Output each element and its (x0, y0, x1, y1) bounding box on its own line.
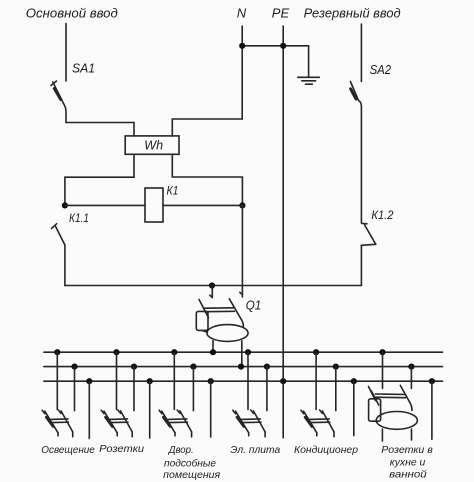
wire: N-PE bond (242, 45, 308, 47)
node A (62, 202, 68, 208)
branch 2: Розетки (101, 349, 152, 438)
svg-text:ванной: ванной (389, 470, 427, 481)
svg-text:К1.1: К1.1 (69, 213, 89, 225)
svg-text:Q1: Q1 (246, 297, 262, 312)
svg-text:Розетки в: Розетки в (381, 445, 433, 456)
node: N bond junction (239, 43, 245, 49)
svg-text:Кондиционер: Кондиционер (294, 445, 358, 456)
switch SA2 (350, 82, 361, 107)
svg-text:подсобные: подсобные (164, 458, 216, 470)
meter Wh (125, 136, 179, 154)
svg-text:N: N (237, 5, 247, 20)
relay coil K1 (65, 188, 243, 222)
svg-text:Основной ввод: Основной ввод (26, 6, 118, 21)
svg-text:Освещение: Освещение (41, 445, 95, 456)
branch 1: Освещение (42, 349, 92, 438)
svg-text:К1.2: К1.2 (371, 210, 394, 222)
node: Q1 output L (210, 349, 216, 355)
node: PE bond junction (280, 43, 286, 49)
wire: K1.2 down (360, 246, 362, 286)
wire: N drop to Wh top-right terminal (172, 26, 242, 136)
bus L (44, 351, 443, 353)
wire: reserve input drop (360, 24, 362, 82)
branch 5: Кондиционер (301, 349, 357, 437)
svg-text:SA2: SA2 (370, 62, 392, 77)
branch 4: Эл. плита (233, 349, 270, 437)
svg-text:Эл. плита: Эл. плита (230, 445, 280, 456)
bus N (44, 366, 443, 368)
wire: main input drop (65, 24, 67, 82)
branch 3: Двор, подсобные помещения (159, 349, 214, 437)
node: Q1 output N (238, 364, 244, 370)
svg-text:Двор.: Двор. (168, 445, 194, 456)
node: PE to bus (280, 378, 286, 384)
wire PE: full vertical (282, 26, 284, 438)
node: Q1 input junction (209, 282, 215, 288)
wire: SA1 to Wh top-left terminal (66, 123, 134, 137)
svg-text:Розетки: Розетки (99, 444, 144, 455)
bus PE (44, 380, 443, 382)
switch SA1 (51, 81, 66, 123)
svg-text:PE: PE (272, 5, 290, 20)
wire: K1.1 down (64, 245, 66, 286)
wire: Wh bottom-right to node B (172, 154, 242, 205)
contact K1.1 (52, 224, 65, 245)
node B (239, 202, 245, 208)
svg-text:Wh: Wh (144, 139, 163, 153)
wire: Wh bottom-left to node A (65, 154, 134, 205)
contact K1.2 (361, 223, 376, 245)
svg-text:Резервный ввод: Резервный ввод (304, 5, 401, 20)
branch 6: RCD Розетки в кухне и ванной (369, 349, 436, 441)
svg-text:помещения: помещения (163, 470, 221, 481)
breaker Q1 (196, 286, 248, 367)
wire: main horizontal line (65, 285, 362, 287)
ground (298, 46, 320, 84)
wire: SA2 to K1.2 (360, 106, 362, 223)
svg-text:кухне и: кухне и (390, 457, 426, 468)
svg-text:К1: К1 (167, 186, 179, 198)
wire: K1 node B to Q1 right pole (241, 205, 243, 297)
svg-text:SA1: SA1 (72, 61, 95, 76)
